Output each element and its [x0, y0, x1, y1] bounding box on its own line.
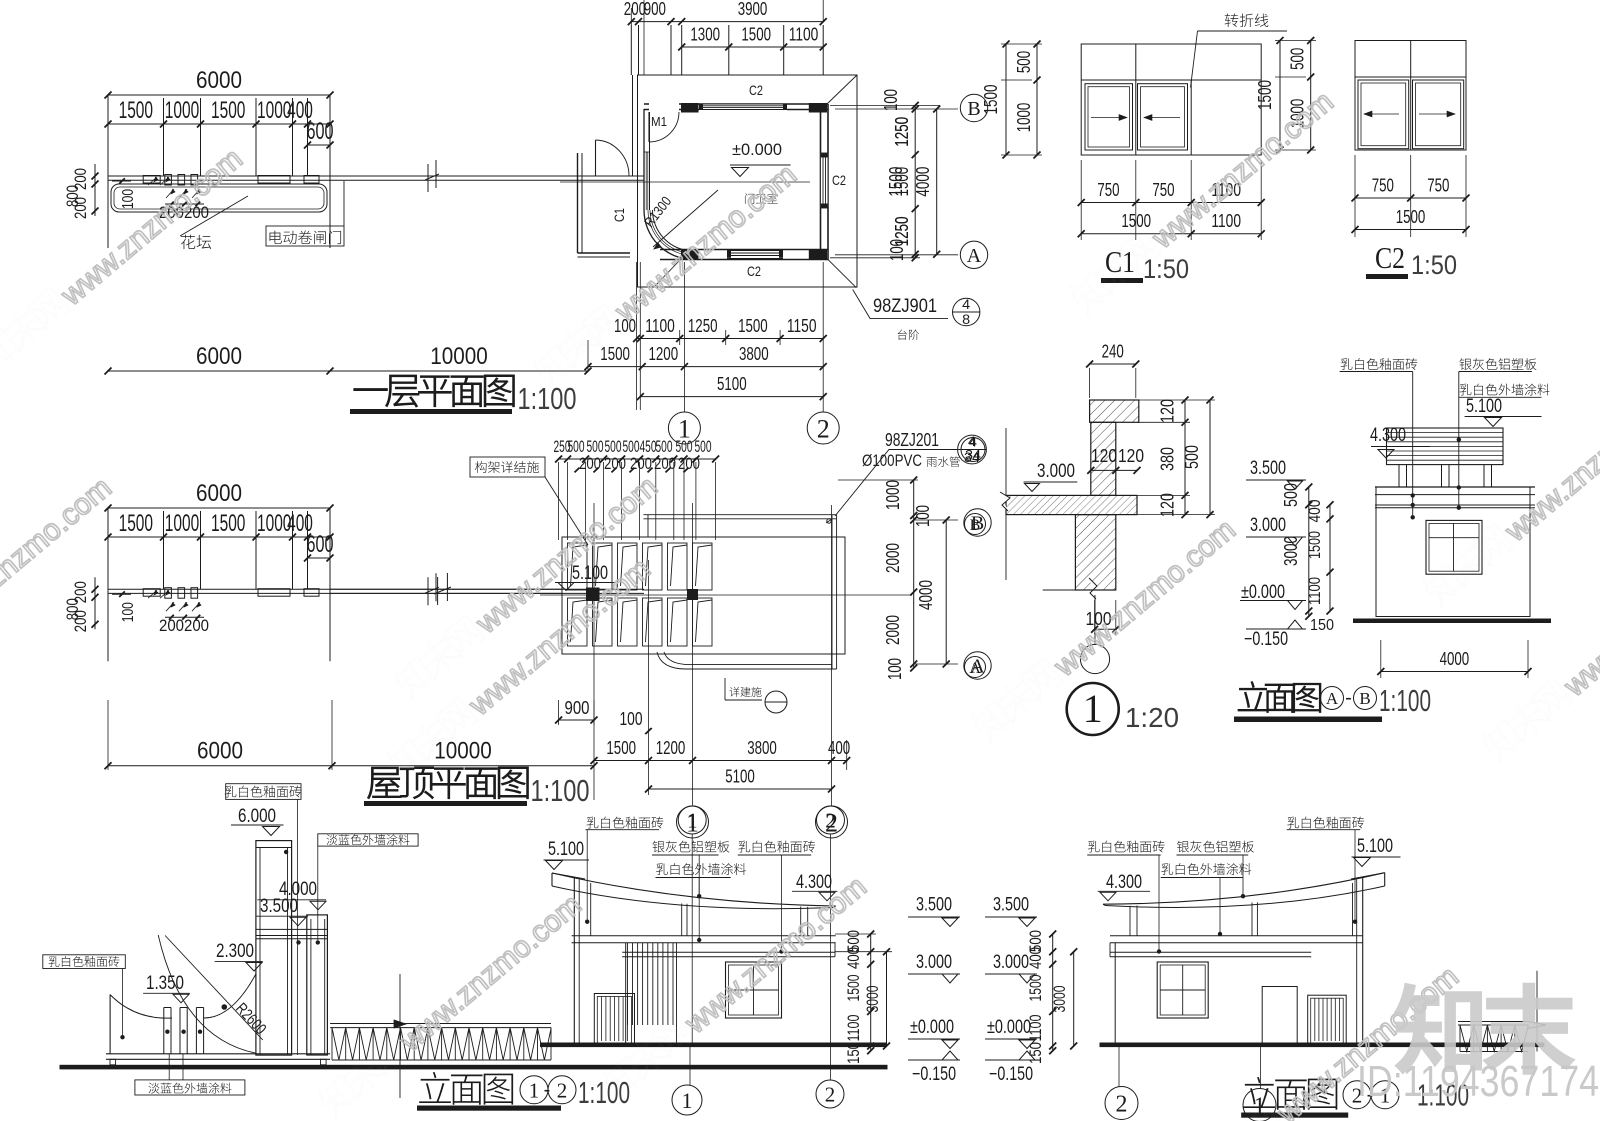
br fence truss: [1458, 1021, 1528, 1023]
svg-text:3.000: 3.000: [993, 952, 1029, 973]
svg-text:900: 900: [565, 698, 590, 718]
svg-text:1: 1: [529, 1078, 540, 1102]
AB title: [1238, 682, 1321, 713]
svg-text:400: 400: [844, 947, 863, 969]
detail axis circle A: [965, 657, 986, 678]
svg-text:4000: 4000: [1440, 649, 1470, 669]
bm roof posts: [681, 904, 683, 936]
svg-text:A: A: [969, 660, 981, 677]
svg-text:1500: 1500: [119, 97, 153, 124]
svg-text:5.100: 5.100: [548, 839, 584, 860]
C2 sash right: [1413, 80, 1464, 149]
title 屋顶平面图: [367, 767, 528, 799]
svg-text:1500: 1500: [741, 25, 771, 45]
roof fence wall extension: [330, 588, 562, 590]
title 立面图1-2: [419, 1072, 513, 1105]
C1 sash right: [1138, 84, 1188, 150]
axis line 1: [683, 262, 685, 412]
roof bottom dim chain: [594, 760, 847, 762]
fence wall plan: [108, 175, 644, 177]
gate column 2: [307, 915, 328, 1055]
dim 240 top: [1090, 363, 1136, 365]
svg-text:1250: 1250: [892, 216, 912, 246]
svg-text:5100: 5100: [717, 374, 747, 394]
right dims 100/1250/1500/1250/100: [914, 105, 916, 257]
C2 sash left: [1358, 80, 1409, 149]
roof right dims inner: [913, 480, 915, 668]
svg-text:100: 100: [620, 709, 643, 729]
svg-text:2: 2: [825, 809, 836, 833]
C1 sash left: [1085, 84, 1133, 150]
roof slab section: [1006, 495, 1137, 514]
roof bottom shared dims 6000/10000: [108, 765, 594, 767]
bm building body: [625, 943, 627, 1044]
bm gate door: [594, 994, 634, 1045]
dim 120/380/120 right: [1184, 400, 1186, 515]
svg-text:4000: 4000: [916, 580, 936, 610]
svg-text:1500: 1500: [600, 344, 630, 364]
label 构架详结施: [470, 457, 545, 477]
svg-text:5100: 5100: [725, 767, 755, 787]
left porch walls: [577, 153, 579, 253]
gate label 乳白色釉面砖 top: [226, 784, 301, 800]
watermark diagonal 5: [383, 548, 657, 787]
svg-text:1000: 1000: [1014, 103, 1034, 133]
axis circle 2: [807, 412, 839, 444]
svg-text:B: B: [970, 517, 981, 534]
svg-text:3.000: 3.000: [1037, 461, 1075, 482]
svg-text:1.350: 1.350: [146, 973, 184, 994]
svg-text:500: 500: [1014, 51, 1034, 73]
svg-text:1250: 1250: [688, 316, 718, 336]
column bottom-right: [809, 250, 827, 261]
svg-text:-: -: [1345, 687, 1352, 709]
window C1 outer frame: [1081, 44, 1261, 155]
svg-text:100: 100: [881, 89, 901, 111]
detail circle 4/34: [961, 438, 985, 462]
svg-text:1100: 1100: [645, 316, 675, 336]
svg-text:1500: 1500: [606, 738, 636, 758]
C2 slide arrows: [1364, 113, 1399, 115]
axis circle A: [960, 241, 987, 268]
svg-text:4.300: 4.300: [1106, 872, 1142, 893]
roof axis circle 1: [677, 806, 709, 838]
room label 门卫室: [745, 193, 778, 204]
roof louvre panels: [568, 543, 713, 646]
dimension fence segments 1500/1000/1500/1000/400: [108, 123, 330, 125]
roof bottom dim 5100: [649, 788, 832, 790]
gate R2600 arc: [158, 935, 256, 1053]
roof column 1: [586, 588, 600, 602]
svg-text:1:100: 1:100: [578, 1075, 630, 1110]
gate base slab: [106, 1053, 330, 1055]
bm louvre strips: [628, 943, 677, 1044]
extension lines: [107, 98, 109, 176]
dimension fence 6000 top: [108, 507, 330, 509]
svg-text:1100: 1100: [844, 1015, 863, 1042]
AB left dims: [1308, 487, 1310, 616]
title 一层平面图: [354, 375, 515, 407]
wall right: [820, 104, 822, 260]
bm label 银灰色铝塑板: [652, 841, 729, 853]
svg-text:C2: C2: [747, 263, 761, 279]
C1 left dims 500/1000 and 1500: [1036, 44, 1038, 155]
svg-text:150: 150: [1026, 1042, 1045, 1064]
axis circle B: [960, 94, 987, 121]
svg-text:1500: 1500: [211, 510, 245, 537]
br axis circle 2: [1105, 1087, 1138, 1120]
svg-text:−0.150: −0.150: [1244, 629, 1288, 650]
detail circle 4/8: [953, 298, 980, 325]
br label 乳白色釉面砖 left: [1088, 841, 1165, 853]
curved wall C1 left: [643, 109, 645, 210]
svg-text:1:20: 1:20: [1125, 702, 1179, 733]
bm canopy slab: [572, 935, 836, 937]
gate posts: [163, 1008, 165, 1054]
svg-text:1500: 1500: [844, 975, 863, 1002]
br axis circle 1: [1243, 1089, 1276, 1121]
svg-text:400: 400: [1305, 500, 1324, 523]
br roof curve: [1384, 873, 1386, 886]
svg-text:1500: 1500: [738, 316, 768, 336]
top extension lines: [630, 25, 632, 75]
entry door left: [595, 140, 597, 176]
bm axis circle 1 bottom: [672, 1085, 702, 1115]
br parapet: [1110, 951, 1311, 953]
label 转折线: [1225, 13, 1269, 27]
svg-text:3.500: 3.500: [916, 895, 952, 916]
fence wall plan: [108, 588, 644, 590]
svg-text:6000: 6000: [197, 738, 243, 765]
br building body: [1114, 943, 1116, 1044]
svg-text:1500: 1500: [1026, 975, 1045, 1002]
roof canopy right edge: [831, 515, 833, 669]
svg-text:500: 500: [1182, 445, 1202, 469]
window C2 bottom opening: [727, 250, 783, 259]
svg-text:-: -: [544, 1079, 551, 1101]
svg-text:600: 600: [307, 118, 334, 145]
gatehouse top dims 1300/1500/1100: [682, 46, 824, 48]
svg-text:10000: 10000: [430, 343, 488, 370]
AB ground line: [1353, 619, 1551, 624]
svg-text:1:100: 1:100: [1379, 683, 1431, 718]
detail connector line: [1094, 595, 1096, 644]
gatehouse bottom dim row2: [588, 366, 823, 368]
svg-text:3000: 3000: [1050, 986, 1069, 1013]
svg-text:2: 2: [557, 1078, 568, 1102]
svg-text:1:100: 1:100: [531, 773, 590, 808]
detail title circle 1: [1067, 683, 1119, 735]
AB parapet bands: [1375, 486, 1535, 488]
dimension fence 600: [308, 144, 331, 146]
svg-text:B: B: [1359, 689, 1370, 708]
br label 乳白色釉面砖 top: [1287, 817, 1364, 829]
wall break symbol: [425, 160, 439, 192]
fence bottom dims 6000/10000: [108, 370, 588, 372]
watermark diagonal 12: [1419, 374, 1600, 613]
svg-text:750: 750: [1097, 180, 1119, 200]
svg-text:900: 900: [644, 0, 666, 19]
svg-text:1200: 1200: [656, 738, 686, 758]
svg-text:1:50: 1:50: [1411, 250, 1457, 280]
svg-text:Ø100PVC: Ø100PVC: [862, 451, 922, 470]
svg-text:400: 400: [1026, 947, 1045, 969]
svg-text:1000: 1000: [165, 97, 199, 124]
roof wall break symbol: [434, 573, 451, 605]
AB label 乳白色外墙涂料: [1460, 384, 1550, 396]
svg-text:±0.000: ±0.000: [987, 1017, 1031, 1038]
svg-text:1500: 1500: [1305, 531, 1324, 559]
svg-text:A: A: [1326, 689, 1339, 708]
svg-text:±0.000: ±0.000: [1241, 582, 1285, 603]
svg-text:1250: 1250: [892, 117, 912, 147]
svg-text:C1: C1: [611, 208, 627, 222]
detail circle 4/34 roof: [958, 435, 987, 464]
wall bottom (axis A): [660, 249, 828, 251]
br left dims: [1052, 934, 1054, 1051]
svg-text:1100: 1100: [789, 25, 819, 45]
svg-text:200: 200: [654, 454, 676, 473]
dim 120 120 middle: [1091, 469, 1137, 471]
roof slab outline: [562, 537, 845, 654]
AB building outline: [1376, 487, 1530, 617]
gate sail wall: [109, 995, 111, 1054]
watermark diagonal 6: [968, 509, 1242, 748]
C1 bottom dims 1500/1100: [1081, 233, 1261, 235]
svg-text:3000: 3000: [863, 986, 882, 1013]
AB label 乳白色釉面砖: [1341, 358, 1418, 370]
svg-text:3.000: 3.000: [1250, 515, 1286, 536]
svg-text:1500: 1500: [981, 85, 1001, 115]
C1 mullions: [1135, 44, 1137, 155]
svg-text:200: 200: [678, 454, 700, 473]
svg-text:2000: 2000: [883, 615, 903, 645]
svg-text:120: 120: [1158, 493, 1178, 517]
svg-text:1100: 1100: [1305, 577, 1324, 605]
roof canopy top edge: [643, 514, 836, 516]
wall top (axis B): [644, 103, 828, 105]
svg-text:500: 500: [1288, 48, 1308, 70]
gatehouse bottom dim row1: [637, 338, 824, 340]
svg-text:1: 1: [1083, 686, 1103, 731]
svg-text:1000: 1000: [165, 510, 199, 537]
C2 bottom dim 1500: [1355, 229, 1466, 231]
roof top dim chain: [559, 458, 716, 460]
svg-text:C2: C2: [1375, 240, 1405, 275]
svg-text:8: 8: [962, 311, 970, 327]
svg-text:240: 240: [1102, 342, 1124, 362]
svg-text:6000: 6000: [196, 343, 242, 370]
svg-text:3.500: 3.500: [1250, 458, 1286, 479]
svg-text:±0.000: ±0.000: [910, 1017, 954, 1038]
roof column 2: [687, 589, 698, 600]
gate label 淡蓝色外墙涂料 right: [318, 834, 418, 846]
svg-text:6.000: 6.000: [238, 806, 276, 827]
svg-text:3800: 3800: [747, 738, 777, 758]
watermark logo 知末: [1394, 983, 1576, 1075]
svg-text:2: 2: [1116, 1092, 1128, 1118]
svg-text:ID:1194367174: ID:1194367174: [1357, 1057, 1599, 1106]
watermark diagonal 10: [390, 466, 664, 705]
svg-text:10000: 10000: [434, 738, 492, 765]
svg-text:4000: 4000: [913, 167, 933, 197]
br canopy slab: [1110, 935, 1363, 937]
br door: [1262, 987, 1297, 1045]
roof right dim 4000: [945, 520, 947, 664]
svg-text:120: 120: [1118, 446, 1144, 466]
AB canopy posts: [1398, 465, 1400, 487]
svg-text:34: 34: [965, 447, 981, 463]
svg-text:100: 100: [120, 602, 137, 622]
axis circle 1: [668, 412, 700, 444]
svg-text:750: 750: [1152, 180, 1174, 200]
svg-text:5.100: 5.100: [1357, 836, 1393, 857]
br roof posts: [1251, 903, 1253, 936]
br label 银灰色铝塑板: [1177, 841, 1254, 853]
leader 98ZJ901 台阶: [853, 290, 948, 319]
dim 500 right: [1209, 400, 1211, 515]
svg-text:1: 1: [687, 809, 698, 833]
watermark diagonal 2: [529, 154, 803, 393]
bm left wall: [573, 878, 575, 1044]
svg-text:1100: 1100: [1026, 1015, 1045, 1042]
svg-text:2: 2: [817, 414, 830, 443]
AB window: [1426, 520, 1482, 574]
svg-text:B: B: [967, 98, 980, 120]
svg-text:100: 100: [120, 189, 137, 209]
gate pillars: [143, 589, 160, 597]
svg-text:1150: 1150: [787, 316, 817, 336]
bm label 乳白色釉面砖 right: [738, 841, 815, 853]
svg-text:2: 2: [825, 1083, 836, 1107]
watermark diagonal 3: [1066, 81, 1340, 320]
pier arrows: [148, 177, 157, 185]
C2 transom line: [1355, 76, 1466, 78]
svg-text:1500: 1500: [886, 167, 906, 197]
door M1 opening: [649, 103, 679, 111]
bm roof curve: [551, 873, 553, 886]
svg-text:750: 750: [1372, 176, 1394, 196]
bm axis circle 2: [817, 806, 845, 834]
svg-text:380: 380: [1158, 447, 1178, 471]
dimension fence segments 1500/1000/1500/1000/400: [108, 536, 330, 538]
roof axis horizontal line: [540, 594, 912, 596]
axis line 2: [822, 262, 824, 412]
detail mark circle: [765, 691, 787, 713]
detail axis circle B: [965, 514, 986, 535]
AB roof canopy: [1387, 428, 1504, 465]
svg-text:100: 100: [913, 505, 933, 527]
label 电动卷闸门: [266, 226, 344, 246]
C2 left dims 500/1000 and 1500: [1310, 41, 1312, 151]
svg-text:150: 150: [1310, 617, 1334, 634]
bm label 乳白色釉面砖: [587, 817, 664, 829]
svg-text:−0.150: −0.150: [989, 1064, 1033, 1085]
svg-text:4.300: 4.300: [1370, 425, 1406, 446]
watermark diagonal 8: [314, 884, 588, 1121]
C1 slide arrows: [1091, 117, 1126, 119]
roof axis circle B: [964, 509, 991, 536]
bm window: [726, 962, 782, 1018]
label 详建施: [729, 687, 761, 697]
right dim 4000: [936, 109, 938, 254]
dimension fence 6000 top: [108, 94, 330, 96]
svg-text:M1: M1: [651, 114, 667, 129]
svg-text:3.500: 3.500: [993, 895, 1029, 916]
svg-text:98ZJ201: 98ZJ201: [885, 430, 939, 450]
C1 transom line: [1081, 79, 1261, 81]
svg-text:2000: 2000: [883, 543, 903, 573]
svg-text:1: 1: [682, 1088, 693, 1113]
ceiling line: [1043, 589, 1076, 591]
gate label 乳白色釉面砖 left: [43, 955, 126, 969]
br label 乳白色外墙涂料: [1161, 863, 1251, 875]
svg-text:750: 750: [1427, 176, 1449, 196]
ground line middle: [540, 1043, 887, 1048]
svg-text:A: A: [967, 245, 982, 267]
column top-right: [809, 103, 827, 113]
svg-text:100: 100: [885, 658, 905, 680]
br window: [1157, 962, 1208, 1018]
svg-text:500: 500: [1281, 483, 1301, 507]
window C2 top opening: [699, 104, 787, 111]
svg-text:1500: 1500: [119, 510, 153, 537]
wall section lower: [1075, 515, 1115, 590]
watermark diagonal 7: [1478, 529, 1600, 768]
svg-text:6000: 6000: [196, 67, 242, 94]
AB label 银灰色铝塑板: [1459, 358, 1536, 370]
roof right extension lines: [838, 479, 918, 481]
label 花坛: [181, 235, 211, 250]
br right wall: [1362, 878, 1364, 1044]
extension lines: [107, 511, 109, 589]
room centerline: [560, 181, 810, 183]
detail axis line vertical: [1005, 428, 1007, 580]
svg-text:120: 120: [1091, 446, 1117, 466]
svg-text:120: 120: [1158, 399, 1178, 423]
svg-text:3.000: 3.000: [916, 952, 952, 973]
svg-text:200: 200: [71, 610, 90, 632]
svg-text:1:50: 1:50: [1143, 254, 1189, 284]
gate pylon: [256, 841, 292, 1056]
roof canopy bottom edge with curve: [657, 652, 837, 669]
pier arrows: [148, 590, 157, 598]
watermark diagonal 11: [1191, 956, 1465, 1121]
svg-text:200: 200: [624, 0, 646, 19]
fence piers 200x200: [165, 175, 172, 186]
svg-text:1:100: 1:100: [518, 381, 577, 416]
wall break bottom: [1089, 578, 1097, 599]
svg-text:200: 200: [579, 454, 601, 473]
canopy hip lines: [827, 75, 857, 104]
svg-text:3900: 3900: [738, 0, 768, 19]
bm parapet: [622, 951, 835, 953]
C1 bottom dims 750/750/1100: [1081, 202, 1261, 204]
svg-text:1000: 1000: [883, 480, 903, 510]
detail small circle: [1080, 644, 1109, 673]
title 立面图2-1: [1243, 1077, 1337, 1110]
parapet cap section: [1090, 400, 1139, 422]
roof axis circle 2: [816, 806, 848, 838]
C2 bottom dims 750/750: [1355, 197, 1466, 199]
svg-text:4: 4: [962, 296, 970, 312]
watermark diagonal 1: [0, 138, 249, 377]
gatehouse bottom dim row3 5100: [640, 396, 823, 398]
gatehouse top dims 200/900/3900: [631, 21, 823, 23]
gatehouse canopy outline: [638, 75, 858, 287]
svg-text:1200: 1200: [649, 344, 679, 364]
bm right dims: [870, 934, 872, 1051]
